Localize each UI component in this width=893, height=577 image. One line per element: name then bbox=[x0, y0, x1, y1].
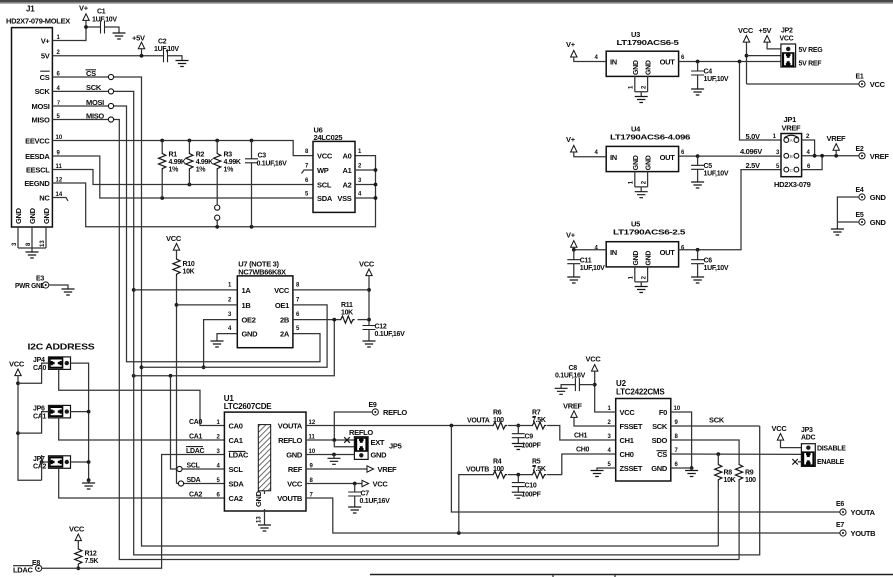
svg-text:E5: E5 bbox=[856, 212, 864, 219]
ground (U5) bbox=[635, 287, 648, 293]
resistor R4 100 bbox=[492, 459, 531, 479]
svg-text:GND: GND bbox=[646, 251, 653, 266]
wire SCK net to U2 pin9 bbox=[671, 416, 760, 427]
svg-text:GND: GND bbox=[242, 330, 259, 339]
pin U6-7 WP no-connect stub bbox=[302, 170, 314, 174]
svg-text:OUT: OUT bbox=[660, 153, 676, 162]
svg-text:VREF: VREF bbox=[870, 152, 890, 161]
svg-text:VCC: VCC bbox=[870, 80, 886, 89]
svg-text:JP5: JP5 bbox=[389, 441, 402, 450]
svg-text:FSSET: FSSET bbox=[620, 422, 643, 431]
svg-text:GND: GND bbox=[870, 193, 887, 202]
svg-text:E7: E7 bbox=[836, 522, 844, 529]
wire U7 GND pin4 bbox=[217, 334, 237, 341]
svg-text:VOUTB: VOUTB bbox=[466, 466, 489, 473]
ground (C10) bbox=[512, 492, 525, 498]
ground (J1) bbox=[26, 252, 39, 258]
IC U7 NC7WB66K8X (NOTE 3) bbox=[228, 260, 300, 348]
terminal E4 GND bbox=[837, 187, 886, 229]
svg-text:HD2X7-079-MOLEX: HD2X7-079-MOLEX bbox=[6, 17, 70, 26]
svg-text:5.0V: 5.0V bbox=[746, 132, 761, 141]
svg-text:VOUTA: VOUTA bbox=[278, 422, 303, 431]
svg-text:R11: R11 bbox=[341, 302, 353, 309]
capacitor C3 0.1UF,16V bbox=[245, 141, 287, 227]
svg-text:SDO: SDO bbox=[652, 436, 668, 445]
terminal E6 YOUTA bbox=[836, 501, 876, 517]
svg-text:VREF: VREF bbox=[378, 465, 398, 474]
node VCC (JP2) bbox=[738, 26, 781, 84]
ground (I2C jumpers) bbox=[82, 478, 95, 489]
svg-text:VOUTA: VOUTA bbox=[467, 417, 490, 424]
resistor R12 7.5K bbox=[75, 548, 99, 570]
node VREF (U2 pin2) bbox=[563, 402, 616, 427]
svg-text:OUT: OUT bbox=[660, 58, 676, 67]
jumper JP6 CA1 bbox=[18, 405, 224, 440]
wire VOUTB to R4 bbox=[459, 466, 492, 533]
svg-text:GND: GND bbox=[42, 207, 51, 224]
svg-text:V+: V+ bbox=[41, 37, 51, 46]
capacitor C12 0.1UF,16V bbox=[363, 324, 406, 342]
wire 5V pin2 bbox=[52, 55, 163, 57]
wire U1 VCC pin8 bbox=[306, 480, 388, 489]
svg-text:R6: R6 bbox=[493, 410, 502, 417]
svg-text:CH1: CH1 bbox=[574, 433, 588, 440]
wire U1 REF pin9 to VREF bbox=[306, 465, 397, 474]
terminal E7 YOUTB bbox=[836, 522, 876, 538]
svg-text:OE2: OE2 bbox=[242, 316, 256, 325]
svg-text:VCC: VCC bbox=[287, 480, 303, 489]
svg-text:YOUTB: YOUTB bbox=[851, 529, 877, 538]
svg-text:C10: C10 bbox=[525, 483, 537, 490]
svg-text:EESDA: EESDA bbox=[25, 152, 50, 161]
ground (C6) bbox=[691, 277, 704, 283]
IC U1 LTC2607CDE bbox=[217, 394, 316, 525]
ground (C1) bbox=[113, 33, 126, 39]
ground (C2) bbox=[176, 61, 189, 67]
net EESDA bbox=[52, 156, 313, 200]
svg-text:C1: C1 bbox=[97, 9, 106, 16]
jumper JP5 REFLO EXT/GND bbox=[349, 428, 402, 459]
svg-text:GND: GND bbox=[371, 450, 388, 459]
svg-text:R3: R3 bbox=[224, 152, 233, 159]
capacitor C2 1UF,10V bbox=[154, 39, 182, 63]
svg-text:GND: GND bbox=[254, 490, 263, 507]
svg-text:C6: C6 bbox=[704, 257, 713, 264]
svg-text:C4: C4 bbox=[704, 69, 713, 76]
wire VOUTA to E6 bbox=[451, 426, 839, 513]
J1 bottom GND pins 3,8,13 bbox=[12, 227, 46, 252]
svg-text:1UF,10V: 1UF,10V bbox=[704, 265, 729, 272]
terminal E3 PWR GND bbox=[15, 276, 68, 291]
svg-text:MISO: MISO bbox=[32, 115, 50, 124]
svg-text:EEVCC: EEVCC bbox=[25, 136, 50, 145]
capacitor C11 1UF,10V bbox=[567, 250, 605, 277]
svg-text:10K: 10K bbox=[183, 269, 195, 276]
ground (C12) bbox=[363, 341, 376, 347]
svg-text:13: 13 bbox=[257, 516, 263, 523]
svg-text:C12: C12 bbox=[375, 324, 387, 331]
IC U3 LT1790ACS6-5 bbox=[595, 30, 686, 97]
svg-text:IN: IN bbox=[610, 58, 617, 67]
wire U7 1B bbox=[177, 304, 238, 306]
svg-text:VCC: VCC bbox=[620, 408, 636, 417]
svg-text:100: 100 bbox=[745, 477, 756, 484]
svg-text:GND: GND bbox=[870, 218, 887, 227]
resistor R2 4.99K 1% bbox=[186, 141, 213, 185]
svg-text:R10: R10 bbox=[183, 261, 195, 268]
svg-text:C8: C8 bbox=[569, 365, 578, 372]
svg-text:2.5V: 2.5V bbox=[746, 161, 761, 170]
svg-text:5V REF: 5V REF bbox=[799, 60, 823, 67]
svg-text:SCK: SCK bbox=[652, 422, 668, 431]
wire U7 1A to SCK bbox=[134, 289, 238, 291]
svg-text:V+: V+ bbox=[566, 135, 576, 144]
svg-text:CS: CS bbox=[40, 73, 50, 82]
svg-text:ENABLE: ENABLE bbox=[817, 459, 845, 466]
svg-text:GND: GND bbox=[286, 451, 303, 460]
svg-text:V+: V+ bbox=[79, 4, 89, 13]
terminal E2 VREF bbox=[856, 146, 890, 161]
node V+ bbox=[79, 4, 89, 29]
svg-text:4.99K: 4.99K bbox=[224, 159, 241, 166]
wire JP1 pins 2,4,6 tie to VREF bbox=[802, 140, 859, 170]
svg-text:WP: WP bbox=[317, 166, 329, 175]
svg-text:REFLO: REFLO bbox=[278, 436, 302, 445]
svg-text:1UF,10V: 1UF,10V bbox=[580, 265, 605, 272]
svg-text:GND: GND bbox=[633, 251, 640, 266]
svg-text:1%: 1% bbox=[169, 167, 180, 174]
svg-text:1%: 1% bbox=[224, 167, 235, 174]
terminal E9 REFLO bbox=[334, 402, 407, 440]
svg-text:GND: GND bbox=[651, 464, 668, 473]
svg-text:LT1790ACS6-5: LT1790ACS6-5 bbox=[617, 38, 679, 47]
capacitor C8 0.1UF,16V bbox=[555, 365, 595, 391]
svg-text:GND: GND bbox=[646, 60, 653, 75]
jumper JP2 VCC 5V REG/5V REF bbox=[780, 28, 824, 68]
svg-text:REFLO: REFLO bbox=[349, 428, 373, 437]
svg-text:EESCL: EESCL bbox=[26, 165, 50, 174]
top border band bbox=[0, 0, 893, 2]
svg-text:R12: R12 bbox=[85, 551, 97, 558]
ground (ZSSET) bbox=[591, 471, 604, 477]
svg-text:CH0: CH0 bbox=[620, 450, 634, 459]
svg-text:CA2: CA2 bbox=[33, 464, 47, 471]
svg-text:C2: C2 bbox=[158, 39, 167, 46]
svg-text:CA1: CA1 bbox=[33, 413, 47, 420]
svg-text:VCC: VCC bbox=[780, 35, 794, 42]
svg-text:V+: V+ bbox=[566, 40, 576, 49]
wire NC pin14 stub bbox=[52, 198, 68, 202]
wire U5 OUT to JP1 pin5 bbox=[679, 170, 781, 252]
svg-text:100: 100 bbox=[493, 417, 504, 424]
wire SCL drop to U1 bbox=[171, 376, 225, 472]
resistor R5 7.5K bbox=[531, 446, 615, 478]
svg-text:CA0: CA0 bbox=[229, 422, 243, 431]
svg-text:E6: E6 bbox=[836, 501, 844, 508]
svg-text:LT1790ACS6-4.096: LT1790ACS6-4.096 bbox=[610, 133, 690, 142]
svg-text:+5V: +5V bbox=[759, 26, 772, 35]
wire SDA drop to U1 bbox=[177, 481, 225, 486]
svg-text:5V: 5V bbox=[41, 52, 50, 61]
svg-text:R9: R9 bbox=[745, 470, 754, 477]
IC U5 LT1790ACS6-2.5 bbox=[595, 220, 686, 287]
svg-text:R1: R1 bbox=[169, 152, 178, 159]
svg-text:GND: GND bbox=[646, 155, 653, 170]
svg-text:V+: V+ bbox=[566, 230, 576, 239]
wire U2 F0 pin10 bbox=[671, 412, 694, 470]
svg-text:CA2: CA2 bbox=[189, 491, 203, 498]
jumper JP1 VREF HD2X3-079 bbox=[740, 115, 811, 189]
svg-text:SDA: SDA bbox=[187, 477, 201, 484]
svg-text:7.5K: 7.5K bbox=[532, 466, 546, 473]
ground (U3) bbox=[635, 97, 648, 103]
svg-text:LT1790ACS6-2.5: LT1790ACS6-2.5 bbox=[613, 228, 685, 237]
svg-text:VREF: VREF bbox=[827, 134, 847, 143]
node VREF (JP1) bbox=[827, 134, 847, 156]
wire V+ pin1 bbox=[52, 27, 100, 41]
svg-text:MOSI: MOSI bbox=[32, 102, 50, 111]
IC U4 LT1790ACS6-4.096 bbox=[595, 125, 691, 192]
svg-text:1A: 1A bbox=[242, 286, 252, 295]
svg-text:1UF,10V: 1UF,10V bbox=[704, 76, 729, 83]
wire U2 GND pin6 bbox=[671, 468, 692, 471]
node V+ (U5) bbox=[566, 230, 606, 251]
svg-text:R8: R8 bbox=[724, 470, 733, 477]
ground (E4/E5) bbox=[831, 229, 844, 235]
svg-text:R7: R7 bbox=[532, 410, 541, 417]
node VCC (R12) bbox=[69, 525, 85, 548]
svg-text:VCC: VCC bbox=[359, 260, 375, 269]
svg-text:C7: C7 bbox=[361, 491, 370, 498]
svg-text:REFLO: REFLO bbox=[383, 408, 407, 417]
capacitor C7 0.1UF,16V bbox=[348, 484, 390, 508]
ground (C11) bbox=[567, 277, 580, 283]
svg-text:10K: 10K bbox=[724, 477, 736, 484]
wire U7 OE2 bbox=[202, 320, 238, 370]
svg-text:100: 100 bbox=[493, 466, 504, 473]
svg-text:J1: J1 bbox=[26, 5, 35, 14]
svg-text:PWR GND: PWR GND bbox=[15, 281, 46, 290]
ground (REFLO GND) bbox=[328, 458, 341, 464]
net label LDAC bbox=[186, 447, 204, 455]
ground (U2 GND) bbox=[685, 471, 698, 477]
svg-text:7.5K: 7.5K bbox=[532, 417, 546, 424]
svg-text:+5V: +5V bbox=[132, 34, 145, 43]
net SCK (SPI) bbox=[52, 83, 759, 555]
wire U4 OUT to JP1 pin3 bbox=[679, 154, 781, 158]
svg-text:SDA: SDA bbox=[229, 480, 245, 489]
svg-text:IN: IN bbox=[610, 248, 617, 257]
svg-text:VREF: VREF bbox=[563, 402, 583, 411]
svg-text:YOUTA: YOUTA bbox=[851, 508, 876, 517]
resistor R3 4.99K 1% bbox=[214, 141, 241, 227]
svg-text:E9: E9 bbox=[369, 402, 377, 409]
terminal E5 GND bbox=[837, 212, 886, 227]
net EEGND bbox=[52, 156, 375, 229]
svg-text:VCC: VCC bbox=[69, 525, 85, 534]
capacitor C1 1UF,10V bbox=[92, 9, 119, 34]
resistor R7 7.5K bbox=[531, 410, 615, 441]
svg-text:R5: R5 bbox=[532, 459, 541, 466]
svg-text:CA0: CA0 bbox=[33, 365, 47, 372]
svg-text:EXT: EXT bbox=[371, 438, 385, 447]
svg-text:VCC: VCC bbox=[9, 360, 25, 369]
svg-text:VCC: VCC bbox=[772, 424, 788, 433]
svg-text:2B: 2B bbox=[280, 316, 290, 325]
svg-text:CH1: CH1 bbox=[620, 436, 634, 445]
resistor R1 4.99K 1% bbox=[159, 141, 186, 199]
terminal E8 LDAC bbox=[13, 560, 42, 575]
svg-text:JP3: JP3 bbox=[801, 427, 813, 434]
svg-text:R2: R2 bbox=[196, 152, 205, 159]
jumper JP7 CA2 bbox=[33, 455, 224, 498]
svg-text:GND: GND bbox=[14, 207, 23, 224]
ground (C7) bbox=[348, 507, 361, 513]
svg-text:7.5K: 7.5K bbox=[85, 558, 99, 565]
svg-text:IN: IN bbox=[610, 153, 617, 162]
svg-text:0.1UF,16V: 0.1UF,16V bbox=[375, 331, 406, 338]
wire VOUTA net U1 pin12 bbox=[306, 417, 520, 427]
svg-text:4.096V: 4.096V bbox=[740, 147, 762, 156]
terminal E1 VCC bbox=[747, 74, 886, 90]
svg-text:CA1: CA1 bbox=[189, 433, 203, 440]
capacitor C4 1UF,10V bbox=[691, 62, 729, 90]
svg-text:SDA: SDA bbox=[317, 194, 333, 203]
node +5V (JP2) bbox=[759, 26, 781, 49]
svg-text:CA1: CA1 bbox=[229, 436, 243, 445]
svg-text:1UF,10V: 1UF,10V bbox=[154, 46, 179, 53]
svg-text:A2: A2 bbox=[343, 181, 352, 190]
svg-text:VREF: VREF bbox=[782, 123, 802, 132]
svg-text:C5: C5 bbox=[704, 163, 713, 170]
node VCC (JP3) bbox=[772, 424, 802, 448]
svg-text:ADC: ADC bbox=[801, 435, 816, 442]
svg-text:VCC: VCC bbox=[317, 152, 333, 161]
svg-text:LTC2607CDE: LTC2607CDE bbox=[224, 402, 273, 411]
svg-text:ZSSET: ZSSET bbox=[620, 464, 643, 473]
svg-text:LDAC: LDAC bbox=[186, 448, 204, 455]
resistor R9 100 bbox=[736, 464, 757, 560]
svg-text:0.1UF,16V: 0.1UF,16V bbox=[360, 498, 391, 505]
capacitor C9 100PF bbox=[512, 426, 542, 450]
svg-text:0.1UF,16V: 0.1UF,16V bbox=[555, 373, 586, 380]
svg-text:VCC: VCC bbox=[738, 26, 754, 35]
svg-text:NC: NC bbox=[39, 193, 50, 202]
svg-text:SCL: SCL bbox=[229, 465, 244, 474]
svg-text:1B: 1B bbox=[242, 301, 252, 310]
svg-text:DISABLE: DISABLE bbox=[817, 446, 846, 453]
ground (U4) bbox=[635, 192, 648, 198]
svg-text:VCC: VCC bbox=[586, 355, 602, 364]
resistor R8 10K bbox=[715, 454, 736, 546]
node VCC (I2C address rail) bbox=[9, 360, 42, 481]
net MOSI (SPI) bbox=[52, 98, 320, 362]
wire CS net U2 pin7 to JP3 bbox=[671, 452, 802, 456]
node V+ (U3) bbox=[566, 40, 606, 62]
IC U2 LTC2422CMS bbox=[608, 379, 681, 481]
net EESCL bbox=[52, 170, 313, 187]
capacitor C5 1UF,10V bbox=[691, 156, 729, 182]
svg-text:HD2X3-079: HD2X3-079 bbox=[774, 180, 811, 189]
node VCC (R10) bbox=[166, 234, 182, 258]
wire U7 OE1 bbox=[142, 305, 328, 367]
svg-text:GND: GND bbox=[633, 155, 640, 170]
ground (C5) bbox=[691, 182, 704, 188]
node +5V bbox=[132, 34, 145, 58]
title block top edge bbox=[370, 575, 893, 577]
svg-text:OUT: OUT bbox=[660, 248, 676, 257]
net CS (SPI) bbox=[52, 69, 718, 546]
jumper JP3 ADC DISABLE/ENABLE bbox=[792, 427, 846, 466]
svg-text:I2C ADDRESS: I2C ADDRESS bbox=[28, 342, 96, 352]
wire U7 VCC pin8 bbox=[293, 289, 369, 291]
svg-text:SCK: SCK bbox=[709, 416, 725, 425]
node VCC (U2 pin1) bbox=[586, 355, 616, 413]
resistor R10 10K bbox=[173, 258, 195, 484]
capacitor C6 1UF,10V bbox=[691, 250, 729, 277]
svg-text:LDAC: LDAC bbox=[229, 451, 250, 460]
svg-text:R4: R4 bbox=[493, 459, 502, 466]
svg-text:A0: A0 bbox=[343, 152, 352, 161]
svg-text:JP2: JP2 bbox=[781, 28, 793, 35]
svg-text:10K: 10K bbox=[341, 310, 353, 317]
svg-text:SCL: SCL bbox=[187, 462, 201, 469]
svg-text:CH0: CH0 bbox=[576, 446, 590, 453]
wire REFLO pin11 bbox=[306, 437, 354, 447]
wire LDAC net E8 to U1 pin3 bbox=[42, 455, 225, 569]
svg-text:VCC: VCC bbox=[274, 286, 290, 295]
svg-text:1%: 1% bbox=[196, 167, 207, 174]
svg-text:CS: CS bbox=[657, 450, 667, 459]
svg-text:13: 13 bbox=[40, 240, 46, 247]
svg-text:CA2: CA2 bbox=[229, 494, 243, 503]
svg-text:EEGND: EEGND bbox=[24, 179, 50, 188]
wire U1 GND pin10 bbox=[306, 453, 354, 459]
svg-text:C9: C9 bbox=[525, 434, 534, 441]
svg-text:F0: F0 bbox=[659, 408, 667, 417]
wire SDO net U2 pin8 bbox=[671, 440, 739, 464]
wire U3 OUT to JP2 bbox=[679, 60, 781, 64]
svg-text:VSS: VSS bbox=[337, 194, 351, 203]
wire U6 A1 A2 VSS ties bbox=[355, 168, 377, 200]
svg-text:E2: E2 bbox=[856, 146, 864, 153]
net EEVCC bbox=[52, 139, 313, 156]
svg-text:5V REG: 5V REG bbox=[799, 47, 824, 54]
ground (E3) bbox=[62, 289, 75, 295]
svg-text:OE1: OE1 bbox=[275, 301, 289, 310]
svg-text:VOUTB: VOUTB bbox=[277, 494, 303, 503]
IC U6 24LC025 bbox=[305, 126, 362, 213]
ground (U7) bbox=[211, 341, 224, 347]
svg-text:VCC: VCC bbox=[166, 234, 182, 243]
svg-text:GND: GND bbox=[28, 207, 37, 224]
net MISO (SPI) bbox=[52, 111, 739, 559]
svg-text:1UF,10V: 1UF,10V bbox=[704, 170, 729, 177]
wire VOUTB net U1 pin7 bbox=[306, 498, 840, 535]
capacitor C10 100PF bbox=[512, 475, 542, 499]
svg-text:REF: REF bbox=[288, 465, 303, 474]
svg-text:0.1UF,16V: 0.1UF,16V bbox=[257, 161, 288, 168]
svg-text:VCC: VCC bbox=[373, 480, 389, 489]
ground (U1 pin13) bbox=[258, 525, 271, 531]
svg-text:SCK: SCK bbox=[35, 87, 51, 96]
svg-text:E1: E1 bbox=[856, 74, 864, 81]
ground (C4) bbox=[691, 89, 704, 95]
svg-text:LTC2422CMS: LTC2422CMS bbox=[616, 387, 665, 396]
svg-text:CA0: CA0 bbox=[189, 419, 203, 426]
wire U7 2B bbox=[134, 318, 369, 378]
wire U2 ZSSET pin5 bbox=[597, 468, 616, 471]
